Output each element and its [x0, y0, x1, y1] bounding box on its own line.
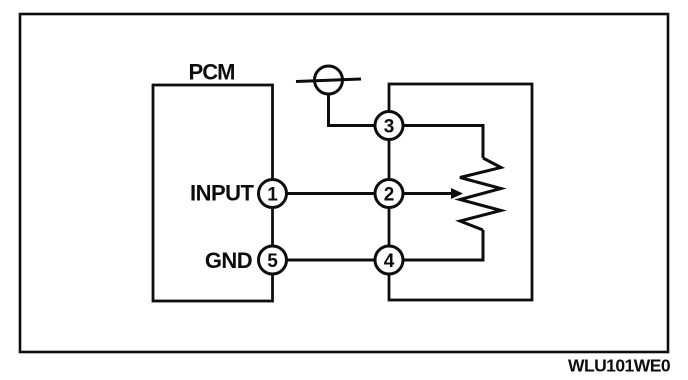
wire pin1 to pin2 with wiper arrow: [273, 192, 454, 195]
pin 2: [375, 180, 403, 208]
pin 3: [375, 112, 403, 140]
wire pin5 to pin4 to resistor bottom: [273, 230, 484, 260]
svg-text:2: 2: [384, 185, 395, 206]
svg-text:1: 1: [267, 185, 278, 206]
svg-text:WLU101WE0: WLU101WE0: [568, 356, 671, 376]
pin 5: [259, 246, 287, 274]
resistor (potentiometer element): [460, 158, 501, 230]
battery feed symbol: [315, 66, 343, 94]
wiper arrowhead: [451, 188, 463, 199]
svg-text:INPUT: INPUT: [190, 181, 255, 206]
sensor box: [389, 84, 532, 300]
pin 1: [259, 180, 287, 208]
PCM box: [153, 85, 273, 301]
svg-text:4: 4: [384, 251, 395, 272]
svg-text:PCM: PCM: [189, 60, 235, 85]
svg-text:5: 5: [267, 251, 278, 272]
svg-text:GND: GND: [205, 248, 252, 273]
wire battery to pin3: [329, 94, 390, 126]
pin 4: [375, 246, 403, 274]
svg-text:3: 3: [384, 117, 395, 138]
wire pin3 to resistor top: [389, 126, 483, 159]
